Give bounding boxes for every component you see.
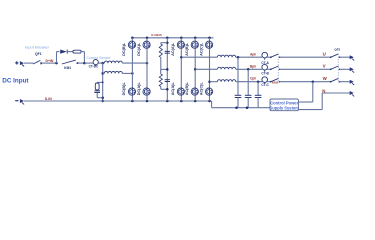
svg-text:D-CBUS: D-CBUS (151, 33, 162, 37)
svg-text:Current Sensor: Current Sensor (86, 56, 111, 60)
wire QF1 to node A (42, 62, 56, 64)
wire col1 collector stub (131, 38, 133, 41)
junction top rail col3 (180, 37, 183, 40)
junction L1 at DC(A) column (146, 62, 149, 65)
junction node C (101, 62, 104, 65)
svg-text:QF2: QF2 (334, 47, 340, 51)
wire precharge down-right (81, 51, 84, 53)
diode D1 precharge (60, 50, 67, 54)
contactor KM2 linkage (277, 54, 279, 83)
inductor L3 phase A filter (217, 55, 235, 57)
wire phase B to output terminal (340, 68, 351, 70)
wire phase C to output terminal (340, 81, 351, 83)
wire bleed R4 bottom stub (161, 88, 168, 90)
capacitor C4 phase A filter (235, 94, 242, 96)
junction node B (83, 62, 86, 65)
wire CT-A to KM2 (267, 56, 271, 58)
wire node C vertical to bottom rail (102, 63, 104, 101)
wire N line (322, 92, 350, 94)
contactor KM2 pole A blade (271, 54, 279, 57)
capacitor C6 phase C filter (255, 94, 262, 96)
inductor L4 phase B filter (217, 67, 235, 69)
wire bleed midpoint tie (161, 68, 168, 70)
capacitor C3 dc-link lower (165, 79, 170, 81)
capacitor C1 snubber (94, 90, 100, 92)
transistor Q2 upper DC(A)L (143, 41, 150, 48)
junction top rail col5 (208, 37, 211, 40)
wire control box tap from phase C (312, 82, 314, 102)
wire phase B tap to filter coil (195, 68, 217, 70)
svg-text:KM2: KM2 (272, 80, 279, 84)
svg-text:CT-C: CT-C (261, 83, 269, 87)
svg-text:DC(A)L: DC(A)L (137, 82, 141, 96)
wire col2 emitter stub (146, 95, 148, 101)
wire node B to CT-DC (84, 62, 93, 64)
breaker QF2 pole B blade (331, 66, 339, 69)
wire bottom rail (24, 100, 212, 102)
wire col2 midsection (146, 49, 148, 88)
junction dc-link midpoint (166, 68, 169, 71)
svg-text:AC(B)L: AC(B)L (185, 42, 189, 56)
current sensor CT-B (262, 64, 268, 70)
junction top rail col2 (146, 37, 149, 40)
junction bottom rail col2 (146, 100, 149, 103)
wire col2 collector stub (146, 38, 148, 41)
junction cap rail A (235, 106, 238, 109)
inductor L1 dc choke top (104, 61, 122, 63)
capacitor C2 dc-link upper (165, 50, 170, 52)
wire bleed R3 top stub (161, 42, 168, 44)
junction phase tap col3 (180, 56, 183, 59)
wire phase B KM2 to QF2 (280, 68, 331, 70)
transistor Q10 lower AC(C)L (206, 88, 213, 95)
transistor Q5 upper AC(C)L (206, 41, 213, 48)
junction top rail col4 (194, 37, 197, 40)
resistor R2 snubber (96, 81, 98, 84)
transistor Q4 upper AC(B)L (191, 41, 198, 48)
junction bottom rail col1 (131, 100, 134, 103)
wire CT-C to KM2 (267, 81, 271, 83)
wire dc-link column (166, 38, 168, 101)
junction top rail col1 (131, 37, 134, 40)
breaker QF2 pole C blade (331, 78, 339, 81)
svg-text:QF1: QF1 (35, 52, 42, 56)
wire top rail D-CBUS (131, 37, 214, 39)
wire cap common rail (211, 101, 213, 108)
junction phase C cap tap (257, 80, 260, 83)
current sensor CT-C (262, 77, 268, 83)
transistor Q1 upper DC(B)L (128, 41, 135, 48)
svg-text:CT-DC: CT-DC (89, 64, 99, 68)
svg-text:CT-B: CT-B (261, 71, 269, 75)
svg-text:U: U (323, 52, 326, 57)
junction snubber bottom tap (101, 96, 104, 99)
resistor R1 precharge (73, 50, 81, 53)
wire phase B cap lead lower (247, 98, 249, 108)
contactor KM2 pole B blade (271, 66, 279, 69)
svg-text:Bph: Bph (250, 65, 256, 69)
wire phase B cap lead upper (247, 69, 249, 95)
junction cap rail B (246, 106, 249, 109)
node D+IN input terminal (+) (15, 62, 18, 64)
svg-text:DC Input: DC Input (2, 78, 29, 85)
wire phase C coil to CT (236, 81, 263, 83)
svg-text:Input Breaker: Input Breaker (25, 45, 50, 50)
breaker QF2 linkage (337, 54, 339, 83)
svg-text:AC(C)L: AC(C)L (199, 82, 203, 96)
wire phase C cap lead upper (257, 82, 259, 96)
junction phase C control tap (312, 80, 315, 83)
wire phase C KM2 to QF2 (280, 81, 331, 83)
wire col4 midsection (194, 49, 196, 88)
contactor KM1 blade (62, 60, 76, 64)
transistor Q9 lower AC(B)L (191, 88, 198, 95)
svg-text:V: V (323, 64, 326, 69)
wire col1 midsection (131, 49, 133, 88)
junction bottom choke tap (101, 72, 104, 75)
wire phase C cap lead lower (257, 98, 259, 108)
wire KM1 to node B (78, 62, 85, 64)
svg-text:W: W (323, 76, 328, 81)
wire col4 collector stub (194, 38, 196, 41)
capacitor C5 phase B filter (245, 94, 252, 96)
wire phase A coil to CT (236, 56, 263, 58)
inductor L5 phase C filter (217, 80, 235, 82)
wire phase C tap to filter coil (210, 81, 218, 83)
control power supply system box U2 (270, 99, 298, 111)
svg-text:DC(A)L: DC(A)L (137, 42, 141, 56)
svg-text:KM1: KM1 (64, 66, 71, 70)
svg-text:D+IN: D+IN (46, 59, 54, 63)
junction phase tap col5 (208, 80, 211, 83)
terminal output V (350, 67, 354, 71)
wire phase B coil to CT (236, 68, 263, 70)
wire CT-B to KM2 (267, 68, 271, 70)
wire snubber top stub (97, 81, 103, 83)
svg-text:DC(B)L: DC(B)L (122, 82, 126, 96)
wire L1 to DC(A) column (122, 62, 147, 64)
junction phase A cap tap (237, 56, 240, 59)
terminal output N (350, 91, 354, 95)
current sensor CT-A (262, 52, 268, 58)
svg-text:DC(B)L: DC(B)L (122, 42, 126, 56)
wire CT-DC to node C (98, 62, 104, 64)
svg-text:AC(B)L: AC(B)L (185, 82, 189, 96)
transistor Q7 lower DC(A)L (143, 88, 150, 95)
wire bleed chain lower (160, 87, 162, 90)
wire bleed chain mid (160, 43, 162, 44)
wire phase A cap lead upper (237, 57, 239, 95)
junction bottom rail col3 (180, 100, 183, 103)
breaker QF1 blade (33, 60, 40, 64)
svg-text:AC(A)L: AC(A)L (171, 82, 175, 96)
transistor Q6 lower DC(B)L (128, 88, 135, 95)
svg-text:Cph: Cph (250, 76, 256, 80)
junction dc-link stub1 (166, 41, 169, 44)
junction L2 at DC(B) column (131, 72, 134, 75)
wire phase A cap lead lower (237, 98, 239, 108)
transistor Q8 lower AC(A)L (177, 88, 184, 95)
breaker QF2 pole A blade (331, 54, 339, 57)
contactor KM2 pole C blade (271, 78, 279, 81)
wire precharge up-left (56, 52, 58, 64)
wire col5 midsection (209, 49, 211, 88)
resistor R4 bleed lower (160, 69, 162, 74)
wire phase A KM2 to QF2 (280, 56, 331, 58)
current sensor CT-DC (93, 60, 98, 65)
wire col4 emitter stub (194, 95, 196, 101)
wire col3 collector stub (180, 38, 182, 41)
transistor Q3 upper AC(A)L (177, 41, 184, 48)
resistor R3 bleed upper (159, 44, 162, 57)
junction bottom rail col5 (208, 100, 211, 103)
junction bottom rail col4 (194, 100, 197, 103)
wire diode to resistor (67, 51, 73, 53)
terminal output U (350, 55, 354, 59)
wire col3 midsection (180, 49, 182, 88)
svg-text:Aph: Aph (250, 52, 256, 56)
wire col3 emitter stub (180, 95, 182, 101)
wire phase A to output terminal (340, 56, 351, 58)
junction top rail cap column (166, 37, 169, 40)
svg-text:AC(A)L: AC(A)L (171, 42, 175, 56)
wire L2 to dc-link midpoint (122, 72, 132, 74)
terminal output W (350, 80, 354, 84)
wire control box to N line (298, 109, 322, 111)
inductor L2 dc choke bottom (103, 72, 105, 74)
svg-text:AC(C)L: AC(C)L (199, 42, 203, 56)
wire col5 collector stub (209, 38, 211, 41)
wire phase A tap to filter coil (181, 56, 217, 58)
junction phase tap col4 (194, 68, 197, 71)
junction phase B cap tap (247, 68, 250, 71)
wire snubber bottom elbow (96, 93, 98, 98)
node D-IN input terminal (-) (15, 100, 18, 102)
junction dc-link stub3 (166, 88, 169, 91)
junction bottom rail at C (101, 100, 104, 103)
wire + input to breaker QF1 (24, 62, 33, 64)
wire col1 emitter stub (131, 95, 133, 101)
junction bottom rail cap column (166, 100, 169, 103)
junction node A (55, 62, 58, 65)
wire col5 emitter stub (209, 95, 211, 101)
svg-text:Supply System: Supply System (270, 105, 300, 110)
